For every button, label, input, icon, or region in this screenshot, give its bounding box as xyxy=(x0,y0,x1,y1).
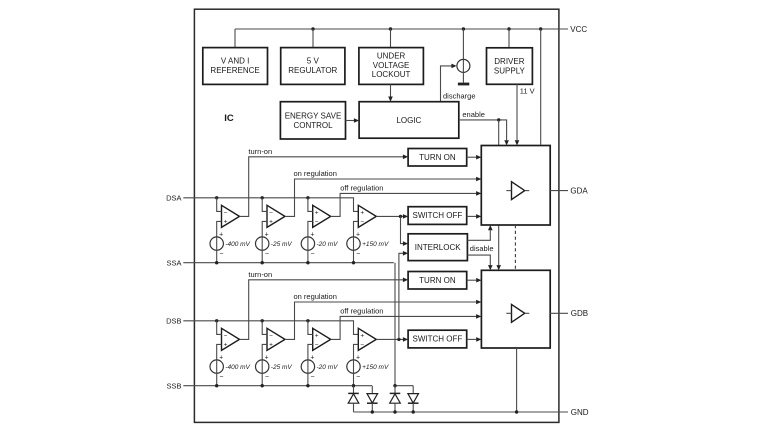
wire comparator B2 offset input xyxy=(262,344,267,360)
junction enable branch xyxy=(497,118,500,121)
junction VCC / driver supply xyxy=(507,27,510,48)
svg-text:ENERGY SAVE: ENERGY SAVE xyxy=(285,111,342,120)
wire comparator B2 inverting input xyxy=(262,321,267,335)
wire enable (LOGIC to GDA) xyxy=(459,120,509,146)
node GDB xyxy=(571,309,588,318)
junction GND / diode D4 xyxy=(412,410,415,413)
junction SSA / source VA4 xyxy=(352,261,355,264)
block DRIVER SUPPLY xyxy=(487,48,533,85)
node SSA xyxy=(166,258,181,267)
diode D3 xyxy=(390,386,401,412)
svg-text:off regulation: off regulation xyxy=(340,307,383,316)
wire off regulation B xyxy=(331,314,482,339)
svg-text:VCC: VCC xyxy=(570,25,587,34)
svg-text:+: + xyxy=(360,333,364,340)
block V AND I REFERENCE xyxy=(203,48,268,85)
wire ENERGY SAVE CONTROL to LOGIC xyxy=(346,118,360,123)
wire disable to GDB xyxy=(467,255,492,270)
label on regulation A xyxy=(294,169,337,178)
svg-text:-25 mV: -25 mV xyxy=(271,241,293,248)
junction VCC / GDA driver xyxy=(539,27,542,144)
value label -400 mV xyxy=(225,364,250,371)
svg-text:+: + xyxy=(315,210,319,217)
svg-text:−: − xyxy=(269,333,273,340)
svg-text:−: − xyxy=(356,374,360,381)
wire on regulation B xyxy=(285,300,481,340)
junction switch-off B / interlock tap xyxy=(397,338,400,341)
op-amp comparator A1 xyxy=(222,205,240,227)
wire TURN ON B to GDB xyxy=(467,278,482,283)
svg-text:-400 mV: -400 mV xyxy=(225,241,250,248)
svg-text:IC: IC xyxy=(224,113,234,124)
wire off regulation A xyxy=(331,191,482,216)
wire source VB1 to SSB xyxy=(216,373,218,385)
junction SSA / source VA1 xyxy=(215,261,218,264)
label IC xyxy=(224,113,234,124)
value label -400 mV xyxy=(225,241,250,248)
svg-text:enable: enable xyxy=(462,110,485,119)
svg-text:+: + xyxy=(356,232,360,239)
ground (discharge source) xyxy=(458,72,469,85)
svg-text:+150 mV: +150 mV xyxy=(362,241,389,248)
wire GDB output xyxy=(550,312,568,314)
wire SSA to clamp diode pair 2 xyxy=(395,263,413,386)
svg-text:−: − xyxy=(265,374,269,381)
offset source VA4 +150 mV xyxy=(347,232,360,258)
junction VCC / discharge source xyxy=(462,27,465,59)
node DSB xyxy=(166,317,181,326)
svg-text:DSB: DSB xyxy=(166,317,181,326)
svg-text:11 V: 11 V xyxy=(520,86,535,95)
svg-text:−: − xyxy=(219,251,223,258)
svg-text:REGULATOR: REGULATOR xyxy=(288,66,337,75)
wire comparator A1 offset input xyxy=(217,221,222,237)
node GDA xyxy=(570,186,588,195)
svg-text:−: − xyxy=(219,374,223,381)
svg-text:+: + xyxy=(219,355,223,362)
wire disable to GDA xyxy=(467,225,492,240)
offset source VB3 -20 mV xyxy=(301,355,314,381)
diode D4 xyxy=(408,386,419,412)
junction GND / diode D3 xyxy=(393,410,396,413)
value label -25 mV xyxy=(271,364,293,371)
block ENERGY SAVE CONTROL xyxy=(280,102,345,139)
wire UVLO to LOGIC xyxy=(388,84,393,101)
value label -20 mV xyxy=(317,241,339,248)
junction DSA / comparator A2 xyxy=(261,196,264,199)
block UNDER VOLTAGE LOCKOUT xyxy=(359,48,424,85)
svg-text:off regulation: off regulation xyxy=(340,184,383,193)
wire on regulation A xyxy=(285,177,481,217)
svg-text:INTERLOCK: INTERLOCK xyxy=(415,243,461,252)
junction diode D3 top xyxy=(393,384,396,387)
wire comparator B1 inverting input xyxy=(217,321,222,335)
svg-text:+: + xyxy=(310,355,314,362)
label enable xyxy=(462,110,485,119)
label turn-on B xyxy=(248,270,272,279)
wire source VA2 to SSA xyxy=(261,250,263,262)
svg-text:−: − xyxy=(356,251,360,258)
svg-text:UNDER: UNDER xyxy=(377,52,406,61)
wire comparator A3 inverting input xyxy=(308,198,313,212)
offset source VA2 -25 mV xyxy=(256,232,269,258)
wire source VA4 to SSA xyxy=(353,250,355,262)
value label -20 mV xyxy=(317,364,339,371)
buffer amplifier U-GDA xyxy=(506,182,529,200)
junction DSB / comparator B3 xyxy=(306,319,309,322)
svg-text:SUPPLY: SUPPLY xyxy=(494,66,526,75)
wire switch-off A (comparator A4 output) xyxy=(376,214,408,219)
svg-text:−: − xyxy=(311,374,315,381)
svg-text:−: − xyxy=(315,342,319,349)
svg-text:-25 mV: -25 mV xyxy=(271,364,293,371)
junction SSB / source VB2 xyxy=(261,384,264,387)
junction SSA / source VA3 xyxy=(306,261,309,264)
wire enable branch to GDB xyxy=(496,120,501,270)
wire VCC bus xyxy=(235,29,568,48)
block LOGIC xyxy=(359,102,459,139)
wire SWITCH OFF A to GDA xyxy=(467,214,482,219)
wire comparator B1 offset input xyxy=(217,344,222,360)
svg-text:GND: GND xyxy=(571,408,589,417)
wire interlock input A xyxy=(401,216,409,246)
wire GND bus xyxy=(354,411,569,413)
svg-text:+: + xyxy=(224,219,228,226)
svg-text:disable: disable xyxy=(470,244,494,253)
wire DSA input net xyxy=(183,198,358,212)
wire SWITCH OFF B to GDB xyxy=(467,337,482,342)
wire SSB input net xyxy=(183,385,372,387)
block TURN ON B xyxy=(408,272,467,290)
node VCC xyxy=(570,25,587,34)
offset source VB4 +150 mV xyxy=(347,355,360,381)
op-amp comparator B3 xyxy=(313,328,331,350)
svg-text:+: + xyxy=(219,232,223,239)
block INTERLOCK xyxy=(408,234,467,261)
wire comparator A2 inverting input xyxy=(262,198,267,212)
block gate driver B xyxy=(481,270,550,348)
node SSB xyxy=(166,381,181,390)
offset source VB1 -400 mV xyxy=(210,355,223,381)
junction SSB / source VB1 xyxy=(215,384,218,387)
junction SSA / source VA2 xyxy=(261,261,264,264)
svg-text:SSA: SSA xyxy=(166,258,181,267)
svg-text:turn-on: turn-on xyxy=(248,147,272,156)
svg-text:DSA: DSA xyxy=(166,194,181,203)
svg-text:discharge: discharge xyxy=(443,92,476,101)
wire GDA output xyxy=(550,190,568,192)
offset source VB2 -25 mV xyxy=(256,355,269,381)
svg-text:+: + xyxy=(315,333,319,340)
current source I1 (discharge) xyxy=(457,59,470,72)
label on regulation B xyxy=(294,292,337,301)
offset source VA3 -20 mV xyxy=(301,232,314,258)
svg-text:CONTROL: CONTROL xyxy=(293,121,333,130)
svg-text:-400 mV: -400 mV xyxy=(225,364,250,371)
wire comparator A4 offset input xyxy=(354,221,359,237)
wire SSB corner to diode D2 xyxy=(371,386,373,394)
svg-text:LOCKOUT: LOCKOUT xyxy=(372,70,411,79)
IC boundary border xyxy=(194,9,559,422)
svg-text:+: + xyxy=(356,355,360,362)
junction GND / diode D2 xyxy=(371,410,374,413)
op-amp comparator A4 xyxy=(358,205,376,227)
value label +150 mV xyxy=(362,364,389,371)
node DSA xyxy=(166,194,181,203)
wire source VB2 to SSB xyxy=(261,373,263,385)
node GND xyxy=(571,408,589,417)
svg-text:−: − xyxy=(360,219,364,226)
op-amp comparator B1 xyxy=(222,328,240,350)
diode D1 xyxy=(348,386,359,412)
wire source VA1 to SSA xyxy=(216,250,218,262)
wire SSA input net xyxy=(183,262,393,264)
wire discharge (LOGIC to I1) xyxy=(441,64,457,102)
junction DSA / comparator A1 xyxy=(215,196,218,199)
svg-text:+: + xyxy=(265,232,269,239)
svg-text:DRIVER: DRIVER xyxy=(494,57,524,66)
label off regulation A xyxy=(340,184,383,193)
wire turn-on B (comparator B1 to TURN ON) xyxy=(240,278,409,340)
svg-text:-20 mV: -20 mV xyxy=(317,364,339,371)
svg-text:−: − xyxy=(224,333,228,340)
svg-text:+150 mV: +150 mV xyxy=(362,364,389,371)
wire DSB input net xyxy=(183,321,358,335)
svg-text:turn-on: turn-on xyxy=(248,270,272,279)
label discharge xyxy=(443,92,476,101)
wire comparator B3 offset input xyxy=(308,344,313,360)
svg-text:+: + xyxy=(360,210,364,217)
svg-text:GDB: GDB xyxy=(571,309,588,318)
svg-text:V AND I: V AND I xyxy=(221,57,249,66)
wire comparator B4 offset input xyxy=(354,344,359,360)
buffer amplifier U-GDB xyxy=(506,304,529,322)
svg-text:GDA: GDA xyxy=(570,186,588,195)
svg-text:+: + xyxy=(269,342,273,349)
svg-text:−: − xyxy=(265,251,269,258)
label disable xyxy=(470,244,494,253)
wire comparator A2 offset input xyxy=(262,221,267,237)
offset source VA1 -400 mV xyxy=(210,232,223,258)
svg-text:on regulation: on regulation xyxy=(294,292,337,301)
svg-text:TURN ON: TURN ON xyxy=(419,153,456,162)
wire source VB3 to SSB xyxy=(307,373,309,385)
op-amp comparator A3 xyxy=(313,205,331,227)
wire turn-on A (comparator A1 to TURN ON) xyxy=(240,155,409,217)
svg-text:SWITCH OFF: SWITCH OFF xyxy=(413,335,463,344)
svg-text:−: − xyxy=(269,210,273,217)
value label +150 mV xyxy=(362,241,389,248)
block 5 V REGULATOR xyxy=(281,48,345,85)
junction VCC / 5V regulator xyxy=(311,27,314,47)
svg-text:SSB: SSB xyxy=(166,381,181,390)
wire 11 V (driver supply to GDA) xyxy=(515,84,520,145)
svg-text:5 V: 5 V xyxy=(307,57,320,66)
svg-text:−: − xyxy=(224,210,228,217)
junction DSB / comparator B2 xyxy=(261,319,264,322)
svg-text:-20 mV: -20 mV xyxy=(317,241,339,248)
svg-text:TURN ON: TURN ON xyxy=(419,276,456,285)
wire source VA3 to SSA xyxy=(307,250,309,262)
svg-text:−: − xyxy=(311,251,315,258)
wire switch-off B (comparator B4 output) xyxy=(376,337,408,342)
block SWITCH OFF B xyxy=(408,330,467,348)
op-amp comparator A2 xyxy=(267,205,285,227)
block SWITCH OFF A xyxy=(408,207,467,225)
wire comparator A3 offset input xyxy=(308,221,313,237)
junction GND / GDB driver xyxy=(515,410,518,413)
label 11 V xyxy=(520,86,535,95)
wire GDB driver to GND xyxy=(516,348,518,412)
svg-text:−: − xyxy=(315,219,319,226)
label turn-on A xyxy=(248,147,272,156)
svg-text:SWITCH OFF: SWITCH OFF xyxy=(413,211,463,220)
wire TURN ON A to GDA xyxy=(467,155,482,160)
label off regulation B xyxy=(340,307,383,316)
svg-text:+: + xyxy=(265,355,269,362)
svg-text:on regulation: on regulation xyxy=(294,169,337,178)
wire comparator B3 inverting input xyxy=(308,321,313,335)
junction switch-off A / interlock tap xyxy=(399,215,402,218)
wire source VB4 to SSB xyxy=(353,373,355,385)
svg-text:REFERENCE: REFERENCE xyxy=(210,66,259,75)
svg-text:+: + xyxy=(310,232,314,239)
op-amp comparator B4 xyxy=(358,328,376,350)
svg-text:LOGIC: LOGIC xyxy=(396,116,421,125)
wire interlock input B xyxy=(399,251,408,339)
junction SSB / source VB3 xyxy=(306,384,309,387)
block gate driver A xyxy=(481,146,550,226)
svg-text:+: + xyxy=(224,342,228,349)
junction SSB / diode D1 xyxy=(352,384,355,387)
junction DSA / comparator A3 xyxy=(306,196,309,199)
svg-text:+: + xyxy=(269,219,273,226)
wire comparator A1 inverting input xyxy=(217,198,222,212)
value label -25 mV xyxy=(271,241,293,248)
op-amp comparator B2 xyxy=(267,328,285,350)
svg-text:VOLTAGE: VOLTAGE xyxy=(373,61,410,70)
diode D2 xyxy=(367,394,378,412)
svg-text:−: − xyxy=(360,342,364,349)
block TURN ON A xyxy=(408,149,467,167)
wire dashed link GDA to GDB xyxy=(514,225,516,270)
junction VCC / UVLO xyxy=(389,27,392,47)
junction DSB / comparator B1 xyxy=(215,319,218,322)
